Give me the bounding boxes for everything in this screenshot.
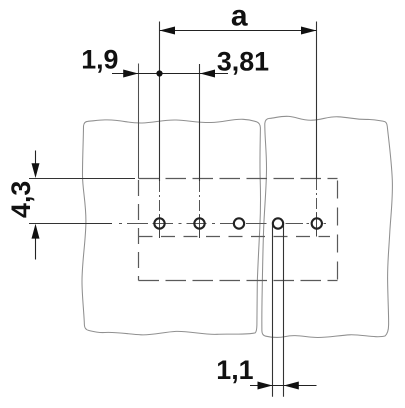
hole 5 centerline vertical (extension of dimension a) bbox=[316, 22, 318, 180]
dimension a: left arrow bbox=[160, 27, 176, 35]
connector body inner dashed line bbox=[139, 236, 331, 238]
connector body outline, dashed: left edge bbox=[138, 180, 140, 281]
svg-text:a: a bbox=[231, 0, 248, 33]
hole 2 centerline vertical (extension of 3,81) bbox=[199, 64, 201, 181]
measure dot at hole-1 centerline bbox=[156, 70, 162, 76]
hole 1 bbox=[154, 218, 164, 228]
dimension 4,3: upper shaft and arrow (pointing down) bbox=[35, 151, 37, 165]
connector body outline, dashed: right edge bbox=[337, 181, 339, 281]
dimension 1,1: left arrow (pointing right) bbox=[258, 382, 273, 390]
dimension 3,81: arrow pointing left at x=200 bbox=[200, 70, 215, 78]
svg-text:1,1: 1,1 bbox=[216, 355, 253, 385]
svg-text:1,9: 1,9 bbox=[81, 45, 118, 75]
dimension 1,1: right arrow (pointing left) bbox=[284, 382, 299, 390]
PCB panel left (broken-out section, wavy outline) bbox=[82, 119, 261, 335]
dimension 4,3: lower shaft and arrow (pointing up) bbox=[35, 239, 37, 260]
extension line x=138.5 for 1,9 (down to body top edge) bbox=[138, 64, 140, 179]
svg-text:4,3: 4,3 bbox=[6, 181, 36, 218]
dimension a: dimension line bbox=[160, 30, 317, 32]
hole 1 centerline vertical (extension of dimension a / 1,9) bbox=[159, 22, 161, 182]
hole 2 bbox=[194, 218, 204, 228]
connector body outline, dashed: bottom edge bbox=[139, 280, 338, 282]
hole 4 drill diameter extension lines (1,1) bbox=[272, 224, 274, 397]
hole 3 bbox=[234, 218, 244, 228]
svg-text:3,81: 3,81 bbox=[217, 46, 269, 76]
horizontal centerline through holes: solid left part (4,3 lower extension) bbox=[29, 223, 112, 225]
dimension 1,1: dimension line bbox=[250, 385, 317, 387]
hole 5 bbox=[312, 218, 322, 228]
horizontal centerline through holes: dash-dot part bbox=[119, 223, 326, 225]
hole 4 bbox=[273, 218, 283, 228]
dimension 1,9 / 3,81: shared dimension line bbox=[112, 73, 228, 75]
4,3 upper extension line (solid, joins dashed top edge) bbox=[29, 178, 135, 180]
PCB panel right (broken-out section, wavy outline) bbox=[262, 116, 393, 337]
dimension a: right arrow bbox=[301, 27, 317, 35]
connector body outline, dashed: top edge bbox=[139, 178, 338, 180]
dimension 1,9: arrow pointing right at x=138 bbox=[123, 70, 138, 78]
